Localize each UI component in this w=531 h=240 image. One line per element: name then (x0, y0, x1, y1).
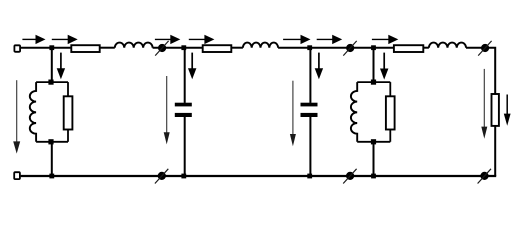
wire top rail segment 2 (100, 47, 115, 49)
voltage arrow u2 (before C1) (164, 76, 170, 144)
section marker dot B (top, slashed) (343, 41, 356, 56)
junction node bottom 2 (C1) (181, 174, 186, 179)
current arrow i3 (top, after marker A) (155, 35, 180, 44)
resistor R2 (series, top rail) (203, 45, 232, 52)
wire shunt branch 2 lower (373, 142, 375, 176)
current arrow i6 (top, after J3) (317, 35, 343, 44)
junction node bottom 1 (49, 174, 54, 179)
section marker dot B2 (bottom, slashed) (343, 169, 356, 184)
inductor L3 (series, top rail) (429, 43, 466, 48)
section marker dot A (top, slashed) (155, 41, 168, 56)
wire shunt 1 top bar (36, 81, 68, 83)
inductor L-shunt-2 (left leg of parallel RL) (351, 82, 357, 142)
wire top rail segment 7 with corner down (466, 48, 495, 94)
inductor L1 (series, top rail) (115, 43, 153, 48)
resistor R3 (series, top rail) (394, 45, 423, 52)
junction node bottom 3 (C2) (307, 174, 312, 179)
section marker dot A2 (bottom, slashed) (155, 169, 168, 184)
wire shunt branch 1 lower (51, 142, 53, 176)
wire capacitor C1 branch lower (184, 117, 186, 176)
junction node bottom 4 (shunt 2) (371, 174, 376, 179)
wire capacitor C2 branch lower (309, 117, 311, 176)
node shunt 1 bottom (48, 139, 53, 144)
wire right vertical below load resistor (494, 126, 496, 176)
wire top rail segment 6 (423, 47, 429, 49)
junction node J4 top (shunt 2) (371, 45, 376, 50)
inductor L-shunt-1 (left leg of parallel RL) (30, 82, 36, 142)
junction node J3 top (C2) (307, 45, 312, 50)
wire shunt branch 1 upper (51, 48, 53, 82)
wire capacitor C1 branch upper (184, 48, 186, 103)
wire shunt branch 2 upper (373, 48, 375, 82)
shunt current arrow d1 (beside shunt 1) (57, 53, 65, 80)
shunt group 1: parallel RL (30, 82, 73, 142)
wire bottom rail (21, 175, 497, 177)
wire top rail segment 1 (20, 47, 72, 49)
inductor L2 (series, top rail) (243, 43, 278, 48)
current arrow i7 (top, over J4) (372, 35, 398, 44)
wire top rail segment 5 (278, 47, 394, 49)
resistor R1 (series, top rail) (71, 45, 99, 52)
terminal input bottom (open square) (14, 172, 20, 179)
node shunt 2 bottom (371, 139, 376, 144)
wire shunt 2 bottom bar (357, 141, 390, 143)
shunt group 2: parallel RL (351, 82, 395, 142)
current arrow i1 (top, before J1) (22, 35, 45, 44)
wire top rail segment 3 (153, 47, 203, 49)
node shunt 1 top (48, 80, 53, 85)
section marker dot C2 (bottom, slashed) (478, 169, 491, 184)
resistor R-load (right vertical) (492, 94, 499, 126)
load current arrow d5 (beside load resistor) (504, 95, 511, 126)
current arrow i2 (top, after J1) (52, 35, 78, 44)
current arrow i5 (top, before J3) (283, 35, 310, 44)
wire shunt 2 top bar (357, 81, 390, 83)
resistor R-shunt-2 (right leg of parallel RL) (389, 82, 391, 96)
voltage arrow u3 (before C2) (290, 81, 296, 147)
voltage arrow u4 (before load) (481, 69, 487, 139)
terminal input top (open square) (14, 45, 20, 52)
junction node J2 top (C1) (181, 45, 186, 50)
node shunt 2 top (371, 80, 376, 85)
wire capacitor C2 branch upper (309, 48, 311, 103)
shunt current arrow d3 (beside C2) (315, 53, 323, 80)
current arrow i4 (top, after J2) (189, 35, 215, 44)
capacitor C2 plates (301, 103, 318, 117)
shunt current arrow d2 (beside C1) (188, 53, 196, 80)
junction node J1 top (49, 45, 54, 50)
wire shunt 1 bottom bar (36, 141, 68, 143)
shunt current arrow d4 (beside shunt 2) (380, 53, 388, 80)
wire top rail segment 4 (231, 47, 243, 49)
voltage arrow u1 (left edge) (13, 80, 20, 153)
capacitor C1 plates (175, 103, 192, 117)
section marker dot C (top, slashed) (478, 41, 491, 56)
resistor R-shunt-1 (right leg of parallel RL) (67, 82, 69, 96)
